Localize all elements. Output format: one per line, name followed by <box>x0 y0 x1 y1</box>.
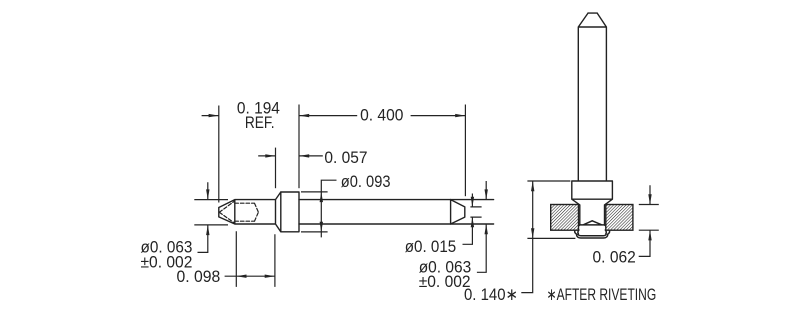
svg-text:0. 062: 0. 062 <box>593 248 636 267</box>
svg-text:0. 057: 0. 057 <box>324 148 367 167</box>
a18 0.062 top (down) <box>648 194 651 204</box>
a2 dia63L bottom (up) <box>206 225 209 235</box>
svg-text:0. 140∗: 0. 140∗ <box>464 285 518 304</box>
a9 dia93 bottom (down) <box>320 222 323 232</box>
dia 0.093 leader+dim <box>301 180 337 237</box>
svg-text:±0. 002: ±0. 002 <box>419 272 471 291</box>
a8 dia93 top (up) <box>320 192 323 202</box>
a11 0.098 right (right) <box>265 275 275 278</box>
dim 0.057 line <box>258 155 323 157</box>
a14 dia63R top (down) <box>485 189 488 199</box>
a7 0.057 right (left) <box>299 154 309 157</box>
riveted end bulge <box>575 221 610 238</box>
svg-text:∗AFTER RIVETING: ∗AFTER RIVETING <box>547 285 657 304</box>
ext line collar right <box>298 105 300 189</box>
svg-text:ø0. 093: ø0. 093 <box>341 172 391 191</box>
dim 0.062 panel thickness <box>639 185 659 256</box>
a19 0.062 bottom (up) <box>648 230 651 240</box>
svg-text:0. 098: 0. 098 <box>177 267 221 286</box>
pin shaft edges extended as extension lines <box>299 200 494 224</box>
a13 dia15 bottom (up) <box>471 217 474 227</box>
arrowheads <box>206 114 652 278</box>
dim 0.098 <box>225 231 275 287</box>
a10 0.098 left (left) <box>236 275 246 278</box>
ext line 0.400 right <box>464 105 466 197</box>
a16 0.140 top (up) <box>531 181 534 191</box>
a1 dia63L top (down) <box>206 189 209 199</box>
a12 dia15 top (down) <box>471 197 474 207</box>
dimension graphics <box>194 105 659 293</box>
dim 0.194 / 0.400 line <box>202 115 466 117</box>
svg-text:ø0. 015: ø0. 015 <box>405 237 456 256</box>
svg-text:REF.: REF. <box>245 113 275 132</box>
riveted view: pin vertical <box>572 13 613 225</box>
dim 0.140 riveted view <box>521 181 575 293</box>
a3 0.194 left (right) <box>209 114 219 117</box>
dimension texts <box>141 99 657 304</box>
a6 0.057 left (right) <box>265 154 275 157</box>
dia 0.015 ext + arrows + leader <box>463 194 482 245</box>
ext line at tip <box>218 106 220 203</box>
dia 0.063 left arrows/leader <box>194 182 228 252</box>
a17 0.140 bottom (down) <box>531 228 534 238</box>
hidden bore lines (dashed) <box>219 201 258 223</box>
a15 dia63R bottom (up) <box>485 224 488 234</box>
panel plate with hatching <box>551 205 633 231</box>
dia 0.063 right arrows + leader <box>477 181 486 272</box>
svg-text:0. 400: 0. 400 <box>360 106 403 125</box>
a4 0.194R/0.400L (left) <box>299 114 309 117</box>
ext line collar left <box>275 148 277 189</box>
pin side view outline <box>219 192 465 232</box>
a5 0.400 right (right) <box>455 114 465 117</box>
